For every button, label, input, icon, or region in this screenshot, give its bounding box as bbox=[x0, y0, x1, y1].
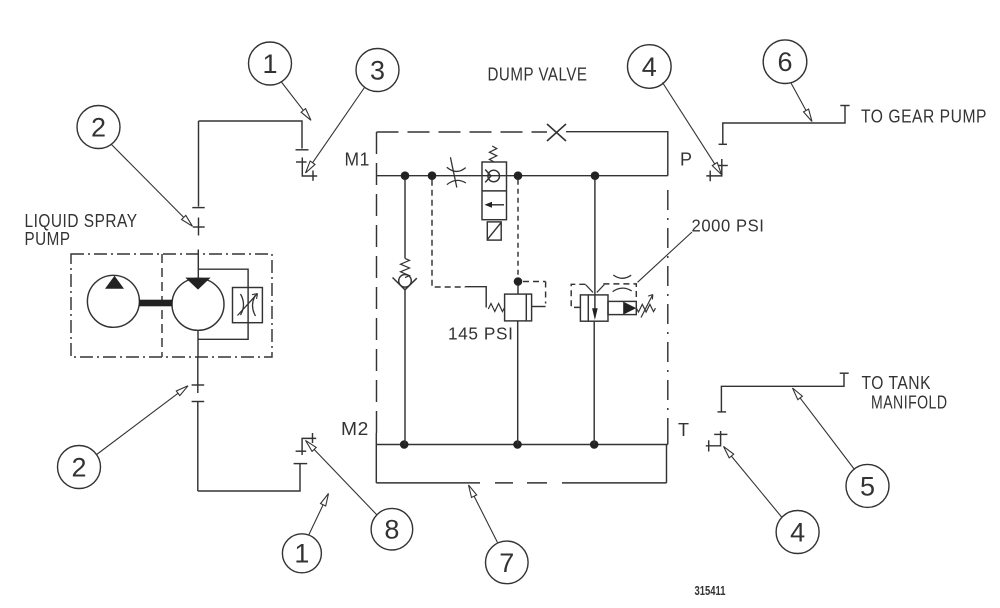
balloon 1 bottom bbox=[282, 534, 321, 573]
leader for balloon 7 bbox=[474, 496, 497, 542]
solenoid cartridge valve (check + bypass) bbox=[482, 146, 507, 240]
svg-text:6: 6 bbox=[777, 47, 792, 77]
adjustable spring bbox=[636, 304, 655, 312]
balloon 4 bottom bbox=[776, 511, 819, 554]
leader for balloon 6 bbox=[791, 83, 806, 111]
junction dots on M1 line bbox=[401, 171, 410, 180]
valve body bbox=[482, 162, 507, 220]
leader for balloon 1 (top) bbox=[281, 82, 303, 111]
leader for balloon 5 bbox=[800, 398, 854, 470]
plugged port X on top edge bbox=[547, 124, 566, 141]
valve bottom band bottom edge bbox=[376, 482, 666, 484]
check valve (left branch) bbox=[393, 180, 417, 445]
wire: bottom run to M2 coupling bbox=[198, 464, 300, 491]
svg-text:315411: 315411 bbox=[695, 584, 726, 598]
junction dots on M2 line bbox=[400, 440, 409, 449]
pilot dashed enclosure left bbox=[571, 284, 636, 308]
balloon 5 bbox=[846, 464, 889, 507]
svg-text:DUMP VALVE: DUMP VALVE bbox=[488, 65, 588, 85]
wire: pump outlet drop inside box bbox=[197, 330, 199, 357]
dump valve right dashed edge bbox=[667, 190, 669, 430]
pump section divider bbox=[161, 254, 163, 357]
svg-text:2: 2 bbox=[91, 113, 106, 143]
leader for balloon 8 bbox=[314, 449, 377, 515]
variable restrictor on M1 line bbox=[447, 157, 466, 187]
balloon 1 top bbox=[249, 42, 292, 85]
dump valve outer box: left dashed edge bbox=[376, 132, 378, 433]
wire: pump inlet drop bbox=[198, 121, 200, 207]
svg-text:P: P bbox=[680, 150, 693, 170]
internal down arrow bbox=[592, 308, 598, 320]
pump right circle bbox=[172, 278, 224, 330]
coupling half (male) M2 side: end bar bbox=[294, 463, 308, 465]
pump left circle (motor) bbox=[87, 275, 139, 327]
dump valve outer box: top dashed edge (left of X) bbox=[377, 131, 548, 133]
svg-text:4: 4 bbox=[790, 518, 805, 548]
flow arrow (lower cell) bbox=[489, 204, 504, 206]
svg-text:M1: M1 bbox=[345, 150, 371, 170]
svg-text:1: 1 bbox=[262, 49, 277, 79]
spring top bbox=[489, 146, 496, 162]
side port box bbox=[608, 301, 636, 314]
coupling half (male) pump outlet: bar and drop bbox=[192, 402, 205, 492]
pilot line from M1 dot down to 145 PSI valve bbox=[517, 180, 519, 282]
drop to M2 bbox=[517, 321, 519, 445]
pilot loop right of 145 PSI valve bbox=[523, 282, 546, 304]
svg-text:2000 PSI: 2000 PSI bbox=[692, 216, 765, 236]
relief valve 2000 PSI bbox=[571, 180, 655, 445]
P port pipe with end bar bbox=[719, 106, 850, 145]
balloon 8 bbox=[371, 508, 413, 550]
flow control box on bypass bbox=[233, 288, 263, 323]
wire: into pump box bbox=[197, 250, 199, 279]
motor triangle (up) bbox=[105, 276, 124, 289]
balloon 2 top bbox=[77, 106, 120, 149]
wire: top-left pipe from pump inlet coupling to M1 coupling bbox=[199, 121, 303, 149]
vent arcs bbox=[613, 275, 631, 278]
adjust arrow bbox=[641, 295, 653, 318]
leader for balloon 4 (top) bbox=[663, 83, 715, 165]
check ball + seat (upper cell) bbox=[488, 170, 500, 182]
pilot triangle bbox=[623, 302, 636, 315]
leader for balloon 1 (bottom) bbox=[309, 505, 324, 536]
sequence valve 145 PSI bbox=[432, 180, 532, 445]
leader for balloon 2 (bottom) bbox=[96, 393, 178, 455]
leader for balloon 3 bbox=[313, 88, 365, 163]
balloon 7 bbox=[486, 541, 529, 584]
dump valve right edge solid stub above T line bbox=[667, 430, 669, 445]
pump shaft bbox=[139, 300, 173, 307]
svg-text:PUMP: PUMP bbox=[25, 229, 71, 249]
valve body bbox=[580, 295, 608, 321]
pump triangle (down) bbox=[185, 278, 210, 290]
svg-text:2: 2 bbox=[71, 453, 86, 483]
svg-text:LIQUID SPRAY: LIQUID SPRAY bbox=[25, 211, 138, 231]
pilot dashes from M1 branch bbox=[432, 180, 465, 287]
svg-text:1: 1 bbox=[294, 538, 309, 568]
T port coupling (female) bbox=[706, 431, 728, 452]
balloon 2 bottom bbox=[58, 446, 101, 489]
svg-text:T: T bbox=[678, 420, 690, 440]
spring left bbox=[488, 304, 504, 312]
svg-text:M2: M2 bbox=[341, 419, 369, 439]
svg-text:7: 7 bbox=[499, 548, 514, 578]
wire: pump outlet to coupling bbox=[197, 357, 199, 375]
P port coupling (female) bbox=[706, 159, 728, 181]
coupling half (female) M1 side: L with ticks bbox=[296, 158, 317, 181]
leader arrows bbox=[96, 82, 855, 543]
valve bottom band left edge bbox=[375, 433, 377, 483]
dump valve top edge solid (X to corner) and P drop bbox=[566, 132, 668, 176]
main drop from P line bbox=[594, 180, 596, 309]
M2 / T internal line bbox=[376, 444, 668, 446]
svg-text:8: 8 bbox=[384, 515, 399, 545]
flow control symbol (arcs + arrow) bbox=[238, 294, 258, 317]
T port pipe with end bar bbox=[718, 373, 849, 412]
pilot junction dot bbox=[514, 277, 523, 286]
coupling half (female) M2: corner with ticks bbox=[296, 433, 317, 455]
svg-text:TO GEAR PUMP: TO GEAR PUMP bbox=[861, 107, 987, 127]
svg-text:TO TANK: TO TANK bbox=[862, 373, 932, 393]
valve bottom band right edge bbox=[666, 445, 668, 483]
coupling half (female) pump inlet: plus bbox=[193, 218, 205, 236]
svg-text:4: 4 bbox=[642, 52, 657, 82]
coupling half (male) at M1 branch: end bar bbox=[296, 149, 309, 151]
spring bracket bbox=[465, 287, 486, 308]
pump bypass loop bbox=[198, 269, 248, 339]
leader for balloon 2 (top) bbox=[112, 145, 184, 218]
coupling half (male) pump inlet: end bar bbox=[192, 207, 204, 209]
leader line 2000 PSI to relief valve bbox=[638, 232, 693, 282]
balloon 6 bbox=[763, 40, 807, 84]
svg-text:145 PSI: 145 PSI bbox=[448, 324, 514, 344]
leader for balloon 4 (bottom) bbox=[731, 456, 782, 517]
svg-text:3: 3 bbox=[370, 56, 385, 86]
balloon 3 bbox=[356, 49, 399, 92]
pump enclosure (dash-dot box) bbox=[71, 254, 272, 357]
solenoid box bbox=[487, 222, 501, 240]
coupling half (female) pump outlet: plus bbox=[192, 375, 205, 393]
balloon 4 top bbox=[628, 45, 672, 89]
svg-text:5: 5 bbox=[860, 471, 875, 501]
svg-text:MANIFOLD: MANIFOLD bbox=[871, 393, 948, 413]
M1 / P internal line bbox=[377, 175, 668, 177]
drop to T line bbox=[593, 321, 595, 444]
